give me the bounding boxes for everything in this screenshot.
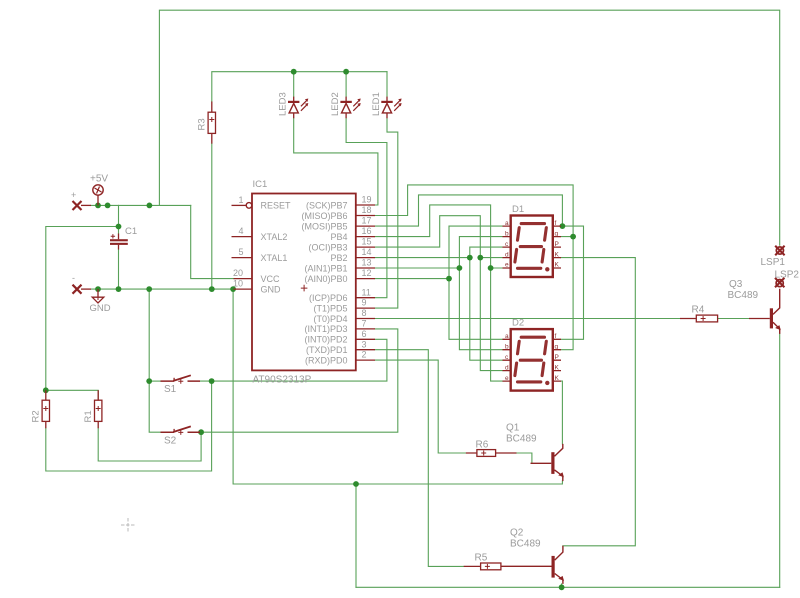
svg-text:XTAL1: XTAL1 [261, 253, 288, 263]
node +5V rail dot C [147, 203, 153, 209]
node D1.e tap [488, 265, 494, 271]
wire +5V rail to C1 top [118, 205, 120, 233]
capacitor C1 [110, 234, 128, 250]
svg-text:R1: R1 [83, 410, 94, 422]
wire pin18 PB6 to D1.g and D2.g [375, 185, 573, 350]
node S1 right junction [209, 378, 215, 384]
display D2 box [511, 329, 553, 391]
svg-text:R5: R5 [475, 553, 488, 564]
resistor R4 [680, 315, 770, 322]
svg-text:(T1)PD5: (T1)PD5 [313, 303, 347, 313]
IC1 pin 10 GND lead [234, 288, 253, 290]
svg-text:BC489: BC489 [510, 538, 541, 549]
IC1 box [252, 194, 356, 371]
IC1 pin 4 lead [232, 236, 253, 238]
wire Q3 emitter to bottom rail [779, 334, 781, 587]
grid origin crosshair [121, 518, 135, 532]
switch S2 [161, 426, 201, 435]
svg-text:13: 13 [362, 258, 372, 268]
node +5V rail dot B [105, 203, 111, 209]
node D1.d tap [477, 255, 483, 261]
+5V supply symbol [93, 185, 103, 206]
svg-text:d: d [505, 364, 509, 371]
svg-text:(INT0)PD2: (INT0)PD2 [304, 335, 347, 345]
resistor R5 [464, 563, 552, 570]
svg-text:14: 14 [362, 247, 372, 257]
transistor Q3 [770, 289, 781, 334]
svg-text:15: 15 [362, 237, 372, 247]
wire pin15 PB3 to D1.d and D2.d [375, 216, 503, 371]
svg-text:2: 2 [362, 350, 367, 360]
display D2 seven-segment digit [515, 337, 546, 382]
wire S2 right lead [200, 431, 201, 433]
svg-text:LED2: LED2 [330, 92, 341, 116]
svg-text:8: 8 [362, 308, 367, 318]
wire pin12 PB0 to D1.a and D2.a [375, 226, 503, 339]
svg-text:GND: GND [261, 284, 282, 294]
wire R3 net: LED rail to R3 to GND rail [212, 72, 387, 289]
svg-text:16: 16 [362, 226, 372, 236]
display D1 box [511, 216, 553, 278]
node D1.a tap [446, 276, 452, 282]
node R2 top junction [43, 387, 49, 393]
display D1 pin leads [503, 226, 562, 268]
wire GND rail to S1/S2 left contacts [149, 289, 160, 432]
wire GND to emitter rail [233, 289, 562, 484]
svg-text:(ICP)PD6: (ICP)PD6 [309, 293, 348, 303]
svg-text:10: 10 [233, 279, 243, 289]
svg-text:XTAL2: XTAL2 [261, 232, 288, 242]
display D2 decimal point [545, 381, 549, 385]
svg-text:LSP1: LSP1 [761, 257, 786, 268]
svg-text:VCC: VCC [261, 274, 281, 284]
svg-text:BC489: BC489 [506, 433, 537, 444]
svg-text:R3: R3 [197, 118, 208, 130]
svg-text:12: 12 [362, 268, 372, 278]
svg-text:+5V: +5V [90, 174, 108, 185]
svg-text:D2: D2 [512, 318, 524, 329]
wire pin2 PD0 to R6 [375, 360, 532, 463]
svg-text:Q2: Q2 [510, 528, 524, 539]
wire Q2 emitter stub [561, 584, 563, 587]
node LED rail dot LED3 [291, 69, 297, 75]
resistor R2 [42, 390, 49, 428]
wire LED rail stubs to LED tops [294, 72, 387, 97]
display D2 pin letters [505, 333, 560, 382]
display D1 seven-segment digit [515, 224, 546, 269]
svg-text:(MISO)PB6: (MISO)PB6 [301, 211, 347, 221]
svg-text:K: K [555, 375, 560, 382]
IC1 right pin leads 19..2 [356, 205, 375, 360]
node C1 top junction [116, 224, 122, 230]
IC1 pin 1 RESET lead and invert circle [232, 203, 252, 209]
node LED rail dot LED2 [343, 69, 349, 75]
svg-text:b: b [505, 230, 509, 237]
svg-text:(SCK)PB7: (SCK)PB7 [306, 200, 348, 210]
pad X- (supply minus terminal) [73, 285, 92, 294]
node GND rail dot A [95, 286, 101, 292]
wire GND rail [91, 288, 234, 290]
wire pin14 PB2 to D1.c and D2.c [375, 247, 503, 360]
wire pin3 PD1 to R5 [375, 350, 464, 567]
node GND rail dot E [230, 286, 236, 292]
display D2 pin leads [503, 339, 562, 381]
svg-text:g: g [555, 343, 559, 350]
svg-text:b: b [505, 343, 509, 350]
svg-text:(INT1)PD3: (INT1)PD3 [304, 324, 347, 334]
svg-text:d: d [505, 251, 509, 258]
svg-text:5: 5 [239, 247, 244, 257]
svg-text:R6: R6 [476, 440, 489, 451]
wire D1.K to Q2 collector [561, 258, 636, 546]
wire bottom GND rail [356, 586, 780, 588]
node emitter rail junction [353, 481, 359, 487]
svg-text:LED3: LED3 [278, 92, 289, 116]
svg-text:LSP2: LSP2 [775, 270, 800, 281]
svg-text:BC489: BC489 [728, 290, 759, 301]
wire LED1 to IC pin 9 [375, 118, 398, 308]
svg-text:3: 3 [362, 339, 367, 349]
svg-text:a: a [505, 220, 509, 227]
node Q2 emitter junction [559, 584, 565, 590]
resistor R1 [95, 390, 102, 428]
svg-text:(TXD)PD1: (TXD)PD1 [306, 345, 348, 355]
svg-text:(MOSI)PB5: (MOSI)PB5 [301, 221, 347, 231]
svg-text:K: K [555, 251, 560, 258]
svg-text:GND: GND [90, 303, 111, 314]
svg-text:RESET: RESET [261, 201, 292, 211]
svg-text:a: a [505, 333, 509, 340]
wire C1 top junction to left branch [46, 227, 119, 401]
svg-text:P: P [555, 241, 559, 248]
node +5V rail dot A [95, 203, 101, 209]
svg-text:S2: S2 [164, 436, 177, 447]
wire R2 to S1 right pullup [46, 381, 212, 471]
IC1 pin 5 lead [232, 257, 253, 259]
IC pin names right [301, 200, 347, 365]
LED LED1 [381, 97, 401, 119]
svg-text:S1: S1 [164, 384, 177, 395]
display D1 pin letters [505, 220, 560, 269]
wire pin8 PD4 to R4 [375, 318, 749, 320]
ground symbol GND [92, 289, 104, 303]
transistor Q2 [501, 546, 564, 584]
wire top loop +5V to LSP1 [159, 10, 779, 245]
svg-text:PB2: PB2 [330, 253, 347, 263]
wire pin17 PB5 to D1.f and D2.f [375, 195, 584, 339]
IC1 pin 20 VCC lead [234, 278, 253, 280]
wire +5V rail [91, 204, 191, 206]
svg-text:AT90S2313P: AT90S2313P [253, 375, 312, 386]
svg-text:+: + [71, 190, 76, 200]
svg-text:-: - [72, 273, 75, 283]
svg-text:e: e [505, 262, 509, 269]
wire S2/R1 link [98, 428, 201, 461]
svg-text:(OCI)PB3: (OCI)PB3 [308, 242, 347, 252]
solder pad LSP2 [775, 278, 784, 287]
svg-text:R2: R2 [31, 410, 42, 422]
IC pin numbers [233, 195, 372, 360]
node S1 left junction [146, 378, 152, 384]
svg-text:(AIN0)PB0: (AIN0)PB0 [304, 274, 347, 284]
wire pin6 PD2 to S1 right [200, 339, 387, 381]
svg-text:f: f [555, 220, 557, 227]
node GND rail dot C [146, 286, 152, 292]
node D1.c tap [467, 255, 473, 261]
solder pad LSP1 [775, 246, 784, 255]
svg-text:K: K [555, 262, 560, 269]
svg-text:4: 4 [239, 226, 244, 236]
svg-text:7: 7 [362, 319, 367, 329]
svg-text:9: 9 [362, 298, 367, 308]
resistor R3 [208, 102, 215, 144]
svg-text:R4: R4 [692, 305, 705, 316]
svg-text:Q1: Q1 [506, 423, 520, 434]
LED LED2 [340, 97, 360, 119]
svg-text:D1: D1 [512, 204, 524, 215]
svg-text:C1: C1 [125, 226, 137, 237]
IC pin names left [261, 201, 292, 295]
svg-text:e: e [505, 375, 509, 382]
wire pin16 PB4 to D1.e and D2.e [375, 205, 503, 381]
wire C1 bottom to GND rail [118, 250, 120, 290]
svg-text:18: 18 [362, 205, 372, 215]
IC1 origin cross [301, 285, 308, 292]
svg-text:g: g [555, 230, 559, 237]
display D1 decimal point [545, 267, 549, 271]
wire pin7 PD3 to S2 right [201, 329, 398, 432]
svg-text:LED1: LED1 [371, 92, 382, 116]
LED LED3 [288, 97, 308, 119]
wire D2.K to Q1 collector [561, 381, 563, 444]
pad X+ (supply plus terminal) [73, 201, 92, 210]
svg-text:K: K [555, 364, 560, 371]
node D1.f junction [560, 223, 566, 229]
wire LED2 to IC pin 11 [346, 118, 387, 297]
wire 484 to 588 rail drop [355, 484, 357, 587]
node S2 right junction [198, 429, 204, 435]
wire VCC feed from +5V rail to IC pin 20 [191, 205, 234, 278]
node D1.g junction [570, 234, 576, 240]
transistor Q1 [531, 444, 564, 481]
svg-text:(T0)PD4: (T0)PD4 [313, 314, 347, 324]
node D1.b tap [457, 265, 463, 271]
svg-text:6: 6 [362, 329, 367, 339]
svg-text:P: P [555, 354, 559, 361]
switch S1 [161, 375, 201, 384]
svg-text:19: 19 [362, 195, 372, 205]
svg-text:11: 11 [362, 287, 371, 297]
svg-text:20: 20 [233, 268, 243, 278]
wire S1 left lead [149, 380, 160, 382]
node GND rail dot B [116, 286, 122, 292]
svg-text:f: f [555, 333, 557, 340]
svg-text:(AIN1)PB1: (AIN1)PB1 [304, 263, 347, 273]
node GND rail dot D [209, 286, 215, 292]
svg-text:Q3: Q3 [729, 279, 743, 290]
wire LED3 to IC pin 19 [294, 118, 378, 205]
svg-text:(RXD)PD0: (RXD)PD0 [305, 355, 348, 365]
svg-text:IC1: IC1 [253, 179, 268, 190]
svg-text:17: 17 [362, 216, 372, 226]
resistor R6 [466, 450, 517, 457]
svg-text:PB4: PB4 [330, 232, 347, 242]
svg-text:1: 1 [239, 195, 244, 205]
wire pin13 PB1 to D1.b and D2.b [375, 237, 503, 350]
